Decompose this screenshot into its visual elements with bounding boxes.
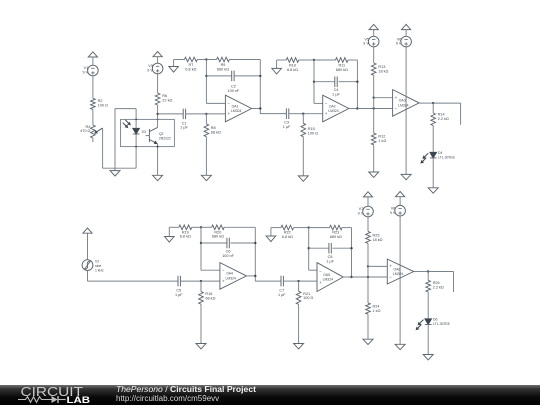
output stub top row bbox=[433, 103, 460, 125]
svg-text:D6: D6 bbox=[433, 318, 437, 322]
ground flag (R7) bbox=[169, 60, 179, 73]
wire C7 to +node bbox=[283, 280, 298, 282]
svg-text:6.8 kΩ: 6.8 kΩ bbox=[282, 235, 293, 239]
label V8 9 V bbox=[390, 206, 396, 214]
ground flag (R10) bbox=[272, 60, 282, 74]
CircuitLab logo bbox=[18, 385, 102, 405]
LED D6 bbox=[425, 319, 432, 325]
wire R10 to fb node bbox=[299, 59, 314, 61]
resistor R14 bbox=[431, 113, 436, 126]
fb bus stage1 vertical bbox=[205, 60, 207, 104]
capacitor C2 bbox=[232, 71, 234, 82]
svg-text:LAB: LAB bbox=[67, 395, 91, 405]
wire -input OA2 bbox=[314, 102, 323, 104]
wire C1 to +input node bbox=[186, 113, 207, 115]
label C2 100 nF bbox=[227, 85, 240, 93]
svg-text:R24: R24 bbox=[373, 305, 380, 309]
label V5 9 V bbox=[363, 37, 369, 45]
svg-text:D4: D4 bbox=[438, 151, 442, 155]
svg-text:Q2: Q2 bbox=[159, 132, 164, 136]
svg-text:R7: R7 bbox=[188, 63, 193, 67]
svg-text:100 nF: 100 nF bbox=[227, 89, 240, 93]
ground (R21) bbox=[294, 344, 304, 349]
optocoupler body box bbox=[121, 119, 175, 146]
svg-text:100 Ω: 100 Ω bbox=[98, 104, 108, 108]
wire C2 to out bus bbox=[234, 75, 260, 77]
wire C5 to +node bbox=[180, 280, 201, 282]
wire R12 to ground bbox=[373, 145, 375, 172]
label C4 1 µF bbox=[332, 88, 340, 96]
resistor R16 bbox=[199, 281, 204, 304]
wire OA4 output bbox=[246, 275, 255, 277]
label V1 9 V bbox=[82, 66, 88, 74]
label V2 sine 1 kHz bbox=[95, 259, 104, 272]
ground (R16) bbox=[196, 344, 206, 349]
junction emitter-box bbox=[157, 146, 159, 148]
potentiometer R4 bbox=[91, 125, 96, 138]
label R4 470 Ω bbox=[80, 125, 90, 133]
wire output node to R14 bbox=[432, 103, 434, 113]
wire node to R9 bbox=[206, 59, 216, 61]
wire node to R23 bbox=[309, 227, 330, 229]
svg-text:9 V: 9 V bbox=[363, 42, 369, 46]
svg-text:R12: R12 bbox=[378, 135, 385, 139]
svg-text:V6: V6 bbox=[397, 37, 402, 41]
svg-text:V8: V8 bbox=[391, 206, 396, 210]
op-amp OA3 LM324 bbox=[393, 90, 420, 117]
wire R22 to fb node bbox=[294, 227, 309, 229]
node OA3 output bbox=[432, 102, 434, 104]
node fb C4 left bbox=[313, 81, 315, 83]
resistor R24 bbox=[366, 303, 371, 314]
svg-text:R20: R20 bbox=[214, 230, 221, 234]
wire R14 to D4 bbox=[432, 126, 434, 153]
node OA5 output bbox=[350, 276, 352, 278]
wire D4 to ground bbox=[432, 158, 434, 188]
node OA4 +input bbox=[200, 280, 202, 282]
node out bus C2 bbox=[259, 75, 261, 77]
svg-text:680 kΩ: 680 kΩ bbox=[336, 68, 348, 72]
power flag above V7 bbox=[363, 192, 372, 207]
svg-text:LM324: LM324 bbox=[231, 109, 241, 113]
wire R13 to divider node bbox=[373, 75, 375, 97]
node OA2 output bbox=[356, 107, 358, 109]
wire R23 to out bus bbox=[342, 227, 351, 229]
wire -input OA1 bbox=[206, 102, 225, 104]
svg-text:LTL-307EE: LTL-307EE bbox=[438, 155, 456, 159]
svg-text:V3: V3 bbox=[148, 64, 153, 68]
svg-text:R13: R13 bbox=[378, 65, 385, 69]
voltage source V6 9 V bbox=[401, 36, 412, 47]
label R14 2.2 kΩ bbox=[438, 112, 449, 120]
voltage source V7 9 V bbox=[363, 206, 374, 217]
wire R6 to collector node bbox=[157, 105, 159, 127]
wire OA3 V- pin to ground bbox=[405, 96, 407, 174]
svg-text:−: − bbox=[222, 268, 225, 273]
svg-text:1 kΩ: 1 kΩ bbox=[373, 309, 381, 313]
node fb C2 left bbox=[205, 75, 207, 77]
svg-text:V5: V5 bbox=[364, 37, 369, 41]
svg-text:OA6: OA6 bbox=[394, 267, 401, 271]
svg-text:LM324: LM324 bbox=[323, 277, 333, 281]
node out bus C6 bbox=[254, 242, 256, 244]
wire OA6 V- pin to ground bbox=[399, 265, 401, 344]
wire wiper to D3 cathode bbox=[103, 167, 137, 169]
svg-text:V7: V7 bbox=[359, 207, 364, 211]
wire R16 to ground bbox=[200, 304, 202, 343]
power flag above V6 bbox=[402, 24, 411, 36]
ground flag (R22) bbox=[266, 228, 276, 242]
svg-text:1 kΩ: 1 kΩ bbox=[378, 139, 386, 143]
svg-text:1 kHz: 1 kHz bbox=[95, 269, 104, 273]
wire V6 to OA3 V+ pin bbox=[405, 47, 407, 97]
svg-text:+: + bbox=[390, 264, 393, 269]
node divider at -input row bbox=[373, 107, 375, 109]
resistor R12 bbox=[371, 133, 376, 145]
svg-text:R26: R26 bbox=[433, 281, 440, 285]
resistor R13 bbox=[371, 63, 376, 75]
label R22 6.8 kΩ bbox=[282, 231, 293, 239]
svg-text:68 kΩ: 68 kΩ bbox=[211, 131, 221, 135]
wire V3 to R6 bbox=[157, 74, 159, 93]
capacitor C8 bbox=[329, 243, 331, 254]
svg-text:18 kΩ: 18 kΩ bbox=[373, 238, 383, 242]
svg-text:LM324: LM324 bbox=[328, 109, 338, 113]
wire gnd to R19 bbox=[169, 226, 179, 228]
wire Q2 emitter to ground bbox=[157, 144, 159, 176]
svg-text:R8: R8 bbox=[211, 126, 216, 130]
node OA2 +input bbox=[302, 113, 304, 115]
wire gnd to R22 bbox=[271, 227, 281, 229]
ground (D6) bbox=[423, 355, 433, 360]
wire output node to R26 bbox=[427, 272, 429, 281]
op-amp OA6 LM324 bbox=[387, 259, 413, 284]
svg-text:R14: R14 bbox=[438, 112, 445, 116]
resistor R22 bbox=[281, 225, 294, 230]
label V6 9 V bbox=[396, 37, 402, 45]
wire OA1 output bbox=[252, 108, 261, 110]
wire V2 down and right bbox=[88, 271, 179, 282]
node divider bottom bbox=[367, 265, 369, 267]
wire fb node to C4 bbox=[314, 81, 335, 83]
svg-text:R9: R9 bbox=[221, 63, 226, 67]
out bus stageA bbox=[254, 227, 256, 281]
photodiode D3 bbox=[133, 128, 140, 134]
voltage source V8 9 V bbox=[395, 205, 406, 216]
svg-text:R11: R11 bbox=[338, 64, 345, 68]
wire fb node to C2 bbox=[206, 75, 231, 77]
node OA6 output bbox=[427, 270, 429, 272]
svg-text:2N2222: 2N2222 bbox=[159, 136, 171, 140]
Q2 emitter diagonal with arrow bbox=[149, 140, 157, 144]
ground (D4) bbox=[428, 188, 438, 193]
out bus stage2 bbox=[356, 60, 358, 109]
op-amp OA4 LM324 bbox=[220, 263, 247, 290]
svg-text:C4: C4 bbox=[334, 88, 339, 92]
wire fb node to C8 bbox=[309, 247, 329, 249]
svg-text:+: + bbox=[395, 95, 398, 100]
wire R21 to ground bbox=[298, 304, 300, 343]
resistor R11 bbox=[336, 58, 349, 63]
svg-text:OA2: OA2 bbox=[329, 104, 336, 108]
svg-text:C2: C2 bbox=[231, 85, 236, 89]
svg-text:R2: R2 bbox=[98, 99, 103, 103]
wire node to OA5 +input bbox=[299, 280, 317, 282]
svg-text:9 V: 9 V bbox=[390, 211, 396, 215]
label R23 680 kΩ bbox=[330, 231, 342, 239]
svg-text:R6: R6 bbox=[162, 94, 167, 98]
label V7 9 V bbox=[358, 207, 364, 215]
op-amp OA5 LM324 bbox=[317, 263, 343, 292]
voltage source V5 9 V bbox=[368, 36, 379, 47]
svg-text:100 nF: 100 nF bbox=[222, 254, 235, 258]
svg-text:680 kΩ: 680 kΩ bbox=[330, 235, 342, 239]
output stub bottom row bbox=[428, 272, 453, 293]
wire node to OA2 +input bbox=[303, 113, 322, 115]
wire gnd to R7 bbox=[174, 59, 185, 61]
op-amp OA1 LM324 bbox=[225, 95, 251, 122]
svg-text:1 µF: 1 µF bbox=[175, 293, 183, 297]
resistor R15 bbox=[301, 114, 306, 137]
resistor R20 bbox=[212, 225, 225, 230]
voltage source V1 9 V bbox=[88, 65, 99, 76]
label R24 1 kΩ bbox=[373, 305, 381, 313]
svg-text:1 µF: 1 µF bbox=[278, 293, 286, 297]
node OA5 +input bbox=[297, 280, 299, 282]
wire C6 to out bus bbox=[231, 242, 256, 244]
wire anode down to ground bbox=[114, 109, 116, 171]
wire node to OA4 +input bbox=[201, 280, 220, 282]
wire D3 anode up bbox=[135, 109, 137, 129]
wire V8 to OA6 V+ pin bbox=[399, 216, 401, 265]
svg-text:LM324: LM324 bbox=[398, 103, 408, 107]
svg-text:R16: R16 bbox=[205, 292, 212, 296]
wire node to R20 bbox=[201, 226, 212, 228]
svg-text:9 V: 9 V bbox=[147, 69, 153, 73]
wire OA5 output bbox=[343, 276, 351, 278]
wire R26 to D6 bbox=[427, 292, 429, 319]
logo wire and resistor zigzag bbox=[18, 397, 52, 403]
label R12 1 kΩ bbox=[378, 135, 386, 143]
capacitor C4 bbox=[335, 76, 337, 87]
wire fb node to C6 bbox=[201, 242, 227, 244]
capacitor C1 bbox=[183, 109, 185, 120]
voltage source V3 9 V bbox=[152, 63, 163, 74]
node out bus C4 bbox=[356, 81, 358, 83]
wire gnd to R10 bbox=[277, 59, 287, 61]
svg-text:C7: C7 bbox=[279, 289, 284, 293]
label D3 bbox=[142, 130, 146, 134]
power flag above V2 bbox=[83, 228, 92, 260]
svg-text:R23: R23 bbox=[332, 231, 339, 235]
label R2 100 Ω bbox=[98, 99, 108, 107]
svg-text:18 kΩ: 18 kΩ bbox=[378, 69, 388, 73]
ground (R8) bbox=[201, 175, 211, 180]
label Q2 2N2222 bbox=[159, 132, 171, 140]
wire C8 to out bus bbox=[333, 247, 352, 249]
Q2 collector diagonal bbox=[149, 127, 157, 131]
footer bar bbox=[0, 385, 540, 405]
label V3 9 V bbox=[147, 64, 153, 72]
svg-text:C5: C5 bbox=[176, 289, 181, 293]
ground (OA6 supply) bbox=[395, 344, 405, 349]
svg-text:6.8 kΩ: 6.8 kΩ bbox=[287, 68, 298, 72]
wire D6 to ground bbox=[427, 325, 429, 355]
wire -input OA5 bbox=[309, 269, 317, 271]
wire -input OA4 bbox=[201, 269, 220, 271]
out bus stageB bbox=[351, 228, 353, 277]
wire divider to OA6 +input bbox=[368, 265, 387, 267]
D3 incoming light arrows bbox=[123, 120, 131, 128]
wire R8 to ground bbox=[205, 137, 207, 176]
resistor R2 bbox=[91, 98, 96, 109]
svg-text:LM324: LM324 bbox=[226, 276, 236, 280]
svg-text:V2: V2 bbox=[95, 259, 99, 263]
node fb top stage2 bbox=[313, 59, 315, 61]
wire collector node to C1 bbox=[158, 113, 184, 115]
fb bus stage2 vertical bbox=[313, 60, 315, 103]
svg-text:9 V: 9 V bbox=[82, 71, 88, 75]
svg-text:680 kΩ: 680 kΩ bbox=[217, 68, 229, 72]
node OA4 output bbox=[254, 275, 256, 277]
wire OA2 out to OA3 -input bbox=[357, 108, 392, 110]
wire R9 to out bus bbox=[229, 59, 260, 61]
wire node to R11 bbox=[314, 59, 336, 61]
svg-text:C8: C8 bbox=[328, 255, 333, 259]
power flag above V8 bbox=[396, 192, 405, 206]
wire OA2 output bbox=[349, 108, 358, 110]
wire V1 to R2 bbox=[92, 76, 94, 99]
svg-text:D3: D3 bbox=[142, 130, 146, 134]
svg-text:R10: R10 bbox=[289, 64, 296, 68]
wire R19 to fb node bbox=[192, 226, 201, 228]
svg-text:C1: C1 bbox=[182, 121, 187, 125]
ground (R12) bbox=[369, 172, 379, 177]
Q2 base lead bbox=[146, 135, 150, 137]
wire OA6 output bbox=[414, 271, 429, 273]
label C1 1 µF bbox=[180, 121, 188, 129]
node fb C6 left bbox=[200, 242, 202, 244]
capacitor C7 bbox=[281, 276, 283, 287]
svg-text:68 kΩ: 68 kΩ bbox=[205, 297, 215, 301]
box pin marks bbox=[135, 119, 158, 148]
LED D4 bbox=[430, 152, 437, 158]
svg-text:2.2 kΩ: 2.2 kΩ bbox=[433, 286, 444, 290]
svg-text:R4: R4 bbox=[86, 125, 91, 129]
svg-text:680 kΩ: 680 kΩ bbox=[212, 235, 224, 239]
label R21 100 Ω bbox=[303, 292, 313, 300]
node OA1 output bbox=[259, 107, 261, 109]
svg-text:OA3: OA3 bbox=[399, 99, 406, 103]
wire R20 to out bus bbox=[224, 226, 255, 228]
label D6 LTL-307EE bbox=[433, 318, 451, 326]
wire C4 to out bus bbox=[338, 81, 357, 83]
label R9 680 kΩ bbox=[217, 63, 229, 71]
wire up to D3 cathode bbox=[135, 134, 137, 168]
resistor R6 bbox=[155, 93, 160, 105]
wire V7 to R25 bbox=[367, 217, 369, 232]
wire divider node to R24 bbox=[367, 266, 369, 303]
svg-text:1 µF: 1 µF bbox=[283, 125, 291, 129]
resistor R7 bbox=[184, 57, 197, 62]
label C7 1 µF bbox=[278, 289, 286, 297]
sine source V2 bbox=[82, 260, 93, 271]
resistor R26 bbox=[426, 280, 431, 292]
wire out to C7 row bbox=[255, 280, 281, 282]
wire node to OA1 +input bbox=[206, 113, 225, 115]
resistor R8 bbox=[204, 114, 209, 137]
node fb top stageB bbox=[308, 226, 310, 228]
ground (Q2 emitter) bbox=[153, 175, 163, 180]
svg-text:470 Ω: 470 Ω bbox=[80, 129, 90, 133]
resistor R10 bbox=[286, 58, 298, 63]
wire divider node to R12 bbox=[373, 98, 375, 133]
node OA1 +input bbox=[205, 113, 207, 115]
power flag above V3 bbox=[153, 52, 162, 64]
capacitor C6 bbox=[227, 238, 229, 249]
svg-text:100 Ω: 100 Ω bbox=[308, 132, 318, 136]
svg-text:2.2 kΩ: 2.2 kΩ bbox=[438, 117, 449, 121]
wire OA3 output bbox=[419, 102, 433, 104]
attribution text bbox=[116, 385, 256, 404]
capacitor C5 bbox=[178, 276, 180, 287]
wire V5 to R13 bbox=[373, 47, 375, 63]
transistor Q2 base bar bbox=[148, 129, 150, 142]
logo diode symbol bbox=[52, 396, 58, 403]
wire R7 to fb node bbox=[197, 59, 206, 61]
node fb C8 left bbox=[308, 247, 310, 249]
svg-text:−: − bbox=[319, 269, 322, 274]
node Q2 collector bbox=[156, 113, 158, 115]
wire R2 to R4 bbox=[92, 109, 94, 125]
op-amp OA2 LM324 bbox=[323, 95, 349, 122]
label R20 680 kΩ bbox=[212, 230, 224, 238]
fb bus stageB vertical bbox=[308, 228, 310, 271]
wire R15 to ground bbox=[302, 137, 304, 176]
node fb top stage1 bbox=[205, 58, 207, 60]
node divider top bbox=[373, 97, 375, 99]
ground (OA3 supply) bbox=[401, 174, 411, 179]
capacitor C3 bbox=[286, 108, 288, 119]
svg-text:V1: V1 bbox=[84, 66, 89, 70]
label R6 22 kΩ bbox=[162, 94, 172, 102]
label R8 68 kΩ bbox=[211, 126, 221, 134]
label R11 680 kΩ bbox=[336, 64, 348, 72]
wire out to C3 row bbox=[260, 112, 286, 115]
svg-text:6.8 kΩ: 6.8 kΩ bbox=[185, 68, 196, 72]
wire OA5 out to OA6 -input bbox=[352, 276, 388, 278]
D4 emission arrows bbox=[421, 153, 428, 163]
ground flag (R19) bbox=[165, 227, 175, 242]
R4 wiper arrow bbox=[95, 128, 103, 133]
wire divider to OA3 +input bbox=[374, 97, 393, 99]
svg-text:−: − bbox=[325, 101, 328, 106]
label C3 1 µF bbox=[283, 121, 291, 129]
svg-text:100 Ω: 100 Ω bbox=[303, 296, 313, 300]
label C8 1 µF bbox=[326, 255, 334, 263]
label R7 6.8 kΩ bbox=[185, 63, 196, 71]
D6 emission arrows bbox=[416, 320, 423, 330]
wire R11 to out bus bbox=[348, 59, 357, 61]
svg-text:6.8 kΩ: 6.8 kΩ bbox=[180, 235, 191, 239]
node divider at -input row bottom bbox=[367, 276, 369, 278]
svg-text:9 V: 9 V bbox=[396, 42, 402, 46]
resistor R25 bbox=[366, 231, 371, 243]
svg-text:C3: C3 bbox=[284, 121, 289, 125]
resistor R21 bbox=[296, 281, 301, 304]
svg-text:R22: R22 bbox=[284, 231, 291, 235]
svg-text:1 µF: 1 µF bbox=[332, 93, 340, 97]
